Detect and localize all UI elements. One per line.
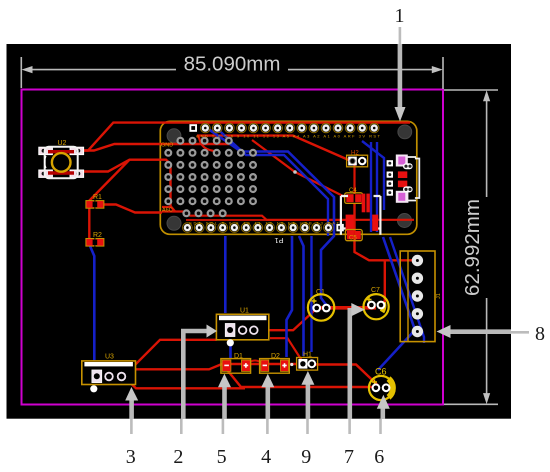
header H2 on module [347,151,368,167]
red trace R1 to R2 [88,206,90,239]
red trace D1-D2 arc [246,361,264,365]
callout 4 [261,374,274,468]
red trace U2 pad1 to module top edge [79,123,410,151]
capacitor C4 on module [345,188,363,203]
svg-text:C7: C7 [371,287,380,294]
blue trace parallel inner [217,129,328,237]
callout 2 [173,325,217,469]
top dimension line 85.090mm [21,57,443,89]
svg-text:U3: U3 [105,354,114,361]
svg-text:8: 8 [535,323,545,345]
resistor R2 [86,232,104,246]
red trace U3 pad3 up to U1 [123,340,217,377]
capacitor C7 [364,287,389,319]
mounting hole top-left [167,129,181,143]
svg-text:GND: GND [161,143,173,149]
svg-text:GND 1 0 5 6 9 10 11 12 13 A5 A: GND 1 0 5 6 9 10 11 12 13 A5 A4 A3 A2 A1… [196,134,381,139]
blue trace pair under USB [371,142,377,232]
red trace U1 pad3 to C1 [259,308,317,330]
capacitor C6 [369,367,393,401]
top dimension arrowheads [22,66,33,73]
svg-text:J1: J1 [436,293,442,299]
svg-text:1: 1 [395,5,405,27]
callout 3 [125,387,138,468]
svg-text:C5: C5 [349,236,357,242]
regulator U3 [82,354,136,393]
board outline (magenta) [22,90,444,405]
svg-text:9: 9 [301,446,311,468]
svg-text:R2: R2 [93,232,102,239]
blue trace R2 to U3 pad1 [90,246,94,370]
svg-text:A6C: A6C [162,208,173,214]
svg-text:4: 4 [261,446,271,468]
red trace D1 to bottom rail [228,371,373,387]
red trace U2 pad2 into module [79,160,175,212]
blue trace top row to USB area [362,141,384,210]
svg-text:85.090mm: 85.090mm [184,53,281,76]
red trace U1 to H1 [270,338,302,360]
svg-text:U1: U1 [240,308,249,315]
connector J1 [400,251,442,342]
mounting hole bottom-right [398,214,412,228]
right dimension arrowheads [483,90,490,101]
diode D2 [260,353,290,373]
resistor R1 [86,194,104,208]
blue trace USB to J1 diagonal 2 [390,237,424,343]
svg-text:C4: C4 [349,188,357,194]
red trace pin row to C4 [252,140,345,197]
blue trace module to U1 pad1 [224,236,227,313]
svg-text:7: 7 [344,446,354,468]
PCB editor black canvas [7,44,512,419]
red trace C4 to C5 to right [355,203,417,260]
callout 8 [437,323,546,345]
via between D2 and H1 [290,363,293,366]
pushbutton U2 [39,140,84,178]
module bottom pin row [183,223,193,233]
svg-text:H2: H2 [351,151,359,157]
red trace module inner S-curve [197,136,214,151]
capacitor C5 at module edge [345,230,362,242]
module prototype grid holes [178,138,184,144]
svg-text:5: 5 [217,446,227,468]
blue trace module down mid [287,236,293,357]
svg-text:2: 2 [173,446,183,468]
svg-text:3: 3 [126,446,136,468]
mounting hole bottom-left [167,216,181,230]
svg-text:62.992mm: 62.992mm [461,199,484,296]
blue trace module to H1 left [299,236,304,356]
blue trace down right of mid [310,236,312,352]
red trace H1 to C6 [312,365,378,386]
micro-USB on module bottom [341,194,381,235]
capacitor C1 [308,289,334,321]
red trace module ADC row [162,207,414,220]
red trace H2 to C4 [353,163,355,194]
blue trace USB to J1 diagonal [378,237,415,370]
red trace U3 pad3 to D1 [125,364,296,378]
red trace branch down to C7 [381,260,385,305]
mounting hole top-right [398,125,412,139]
blue trace module pin2 diagonal [209,130,334,307]
callout 7 [344,303,365,468]
red trace R1 to U2 net junction [89,160,130,201]
svg-text:P1: P1 [274,236,283,245]
via on C4 trace [293,170,297,174]
svg-text:6: 6 [374,446,384,468]
right dimension line 62.992mm [444,90,498,404]
diode D1 [221,353,251,373]
red trace module row under pins [197,136,351,161]
red trace U2 pad1 to module GND net [79,144,231,151]
callout 5 [217,374,231,468]
svg-text:R1: R1 [93,194,102,201]
regulator U1 [216,308,268,347]
micro-USB right side connector [387,155,420,203]
module P1 outline [160,121,417,234]
module top pin row [189,124,197,132]
red trace R1 right pad to module ADC [99,205,163,213]
callout 6 [374,395,390,468]
blue trace U1 pad1 to D1 [229,340,232,358]
red trace C1 to C7 thick [321,306,376,310]
header H1 [297,352,318,371]
callout 1 [395,5,406,122]
red trace module bottom band [186,219,345,221]
callout 9 [301,371,314,468]
red trace U3 pad3 to bottom rail [125,378,245,388]
